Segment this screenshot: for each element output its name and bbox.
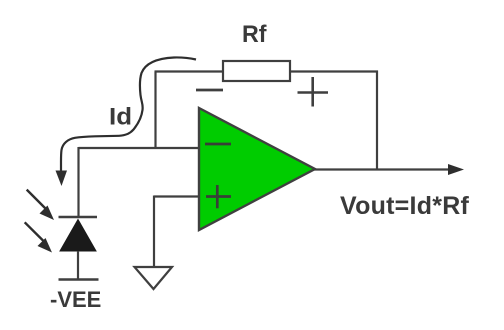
wire ground vertical bbox=[153, 196, 155, 268]
wire feedback right vertical bbox=[376, 71, 378, 170]
wire inverting input horizontal bbox=[79, 147, 200, 149]
op-amp inverting input minus bbox=[205, 143, 231, 146]
op-amp non-inverting input plus bbox=[206, 185, 231, 208]
polarity plus sign bbox=[298, 77, 329, 107]
wire output horizontal bbox=[314, 168, 450, 170]
light arrow 1 bbox=[27, 190, 54, 220]
resistor Rf bbox=[223, 61, 290, 81]
current direction curve Id bbox=[61, 57, 196, 171]
polarity minus sign bbox=[196, 89, 223, 92]
svg-text:Vout=Id*Rf: Vout=Id*Rf bbox=[340, 192, 470, 220]
op-amp U1 bbox=[199, 108, 315, 230]
output arrowhead bbox=[448, 164, 464, 175]
wire feedback top horizontal right of resistor bbox=[290, 70, 378, 72]
wire non-inverting input horizontal bbox=[154, 195, 199, 197]
svg-text:Id: Id bbox=[109, 104, 132, 131]
light arrow 2 bbox=[25, 222, 52, 252]
wire feedback left vertical bbox=[154, 72, 156, 149]
node -VEE bar bbox=[59, 278, 99, 280]
ground bbox=[135, 267, 173, 289]
svg-text:-VEE: -VEE bbox=[50, 287, 101, 312]
wire feedback top horizontal left of resistor bbox=[155, 70, 225, 72]
current arrowhead bbox=[56, 171, 68, 187]
photodiode D1 bbox=[59, 217, 98, 280]
wire photodiode cathode vertical bbox=[77, 147, 79, 218]
svg-text:Rf: Rf bbox=[242, 21, 267, 48]
